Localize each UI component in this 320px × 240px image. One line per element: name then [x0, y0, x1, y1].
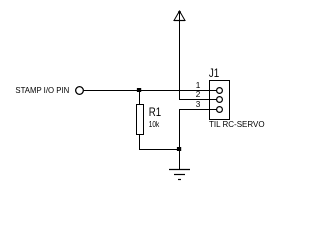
svg-text:1: 1 — [196, 81, 201, 90]
svg-text:2: 2 — [196, 90, 201, 99]
connector J1 box — [210, 81, 230, 120]
wire pin 3 to ground — [180, 110, 218, 170]
wire VCC vertical down to pin 2 — [179, 12, 181, 100]
svg-text:TIL RC-SERVO: TIL RC-SERVO — [209, 120, 265, 129]
node junction at ground net — [177, 147, 181, 151]
svg-text:10k: 10k — [149, 120, 160, 129]
power VCC symbol — [174, 11, 185, 21]
svg-text:R1: R1 — [149, 105, 162, 119]
svg-text:STAMP I/O PIN: STAMP I/O PIN — [15, 86, 69, 95]
wire signal pin 1 — [84, 90, 217, 92]
svg-text:J1: J1 — [209, 66, 219, 80]
svg-text:3: 3 — [196, 100, 201, 109]
wire resistor bottom to ground net — [140, 135, 180, 150]
ground symbol — [169, 170, 190, 180]
resistor R1 — [137, 105, 144, 135]
node junction at resistor top — [137, 88, 141, 92]
connector J1 pin circles — [217, 88, 223, 113]
wire VCC horizontal to pin 2 — [179, 99, 217, 101]
terminal STAMP I/O PIN — [76, 87, 84, 95]
wire resistor top stub — [139, 91, 141, 105]
